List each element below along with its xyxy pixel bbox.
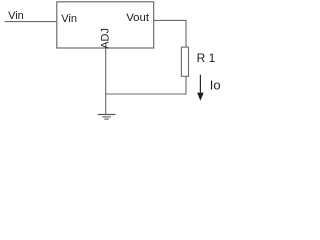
wire resistor bottom to ground rail [106,76,186,94]
svg-text:ADJ: ADJ [100,28,112,49]
wire Vin input [5,21,57,23]
svg-text:Vin: Vin [61,13,77,25]
svg-text:Vin: Vin [8,10,24,22]
svg-text:R 1: R 1 [197,51,216,65]
resistor R1 body [181,47,188,76]
ground [98,115,116,120]
svg-text:Vout: Vout [126,12,150,24]
wire Vout to resistor top [154,20,186,47]
wire ADJ pin down [105,48,107,114]
regulator U1 body [57,2,154,48]
svg-text:Io: Io [210,77,221,92]
current arrow Io [197,75,204,101]
